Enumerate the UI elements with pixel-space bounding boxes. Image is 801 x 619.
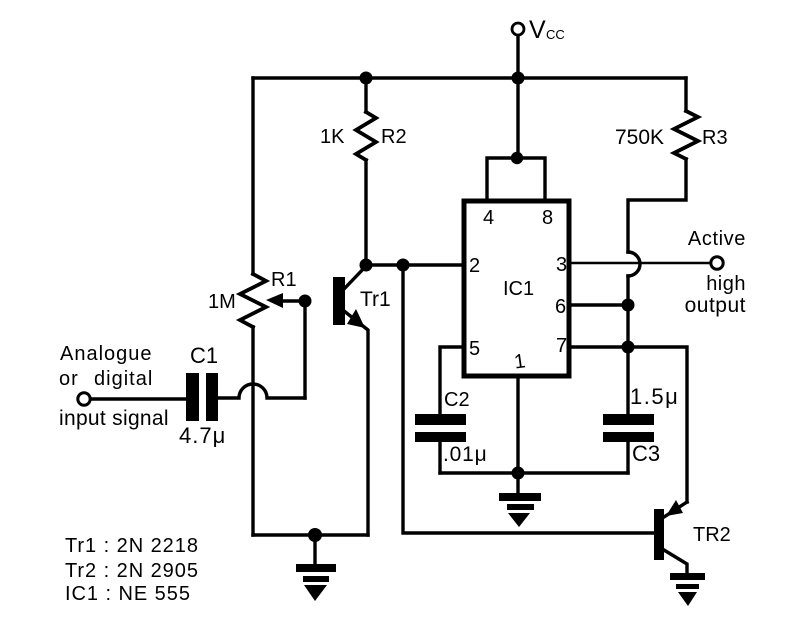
svg-text:digital: digital [94,368,153,390]
svg-text:6: 6 [555,296,566,318]
svg-text:V: V [529,16,546,44]
svg-text:output: output [685,294,746,317]
svg-text:750K: 750K [615,126,664,149]
svg-text:C2: C2 [444,389,470,411]
svg-text:.01μ: .01μ [443,443,488,466]
svg-text:7: 7 [556,335,567,357]
svg-text:high: high [706,273,746,295]
svg-text:8: 8 [542,207,553,229]
svg-text:Analogue: Analogue [60,343,153,365]
svg-text:input signal: input signal [59,407,169,430]
svg-text:IC1 : NE 555: IC1 : NE 555 [65,583,191,605]
svg-text:IC1: IC1 [503,278,534,300]
svg-text:C1: C1 [190,343,218,368]
svg-text:R1: R1 [271,269,297,291]
svg-text:TR2: TR2 [693,524,731,546]
svg-text:1M: 1M [208,291,236,313]
svg-text:Active: Active [688,228,746,250]
svg-text:C3: C3 [632,441,660,466]
svg-text:4.7μ: 4.7μ [179,423,226,448]
svg-text:R2: R2 [381,126,407,148]
svg-text:1.5μ: 1.5μ [630,384,679,409]
svg-text:2: 2 [469,255,480,277]
svg-text:Tr2 : 2N 2905: Tr2 : 2N 2905 [65,560,199,582]
svg-text:4: 4 [483,207,494,229]
svg-text:Tr1 : 2N 2218: Tr1 : 2N 2218 [65,535,199,557]
svg-text:5: 5 [469,338,480,360]
svg-text:1K: 1K [320,126,345,148]
svg-text:CC: CC [546,27,565,42]
svg-text:R3: R3 [702,127,728,149]
svg-text:Tr1: Tr1 [360,288,391,311]
svg-text:or: or [59,368,79,390]
svg-text:3: 3 [556,254,567,276]
